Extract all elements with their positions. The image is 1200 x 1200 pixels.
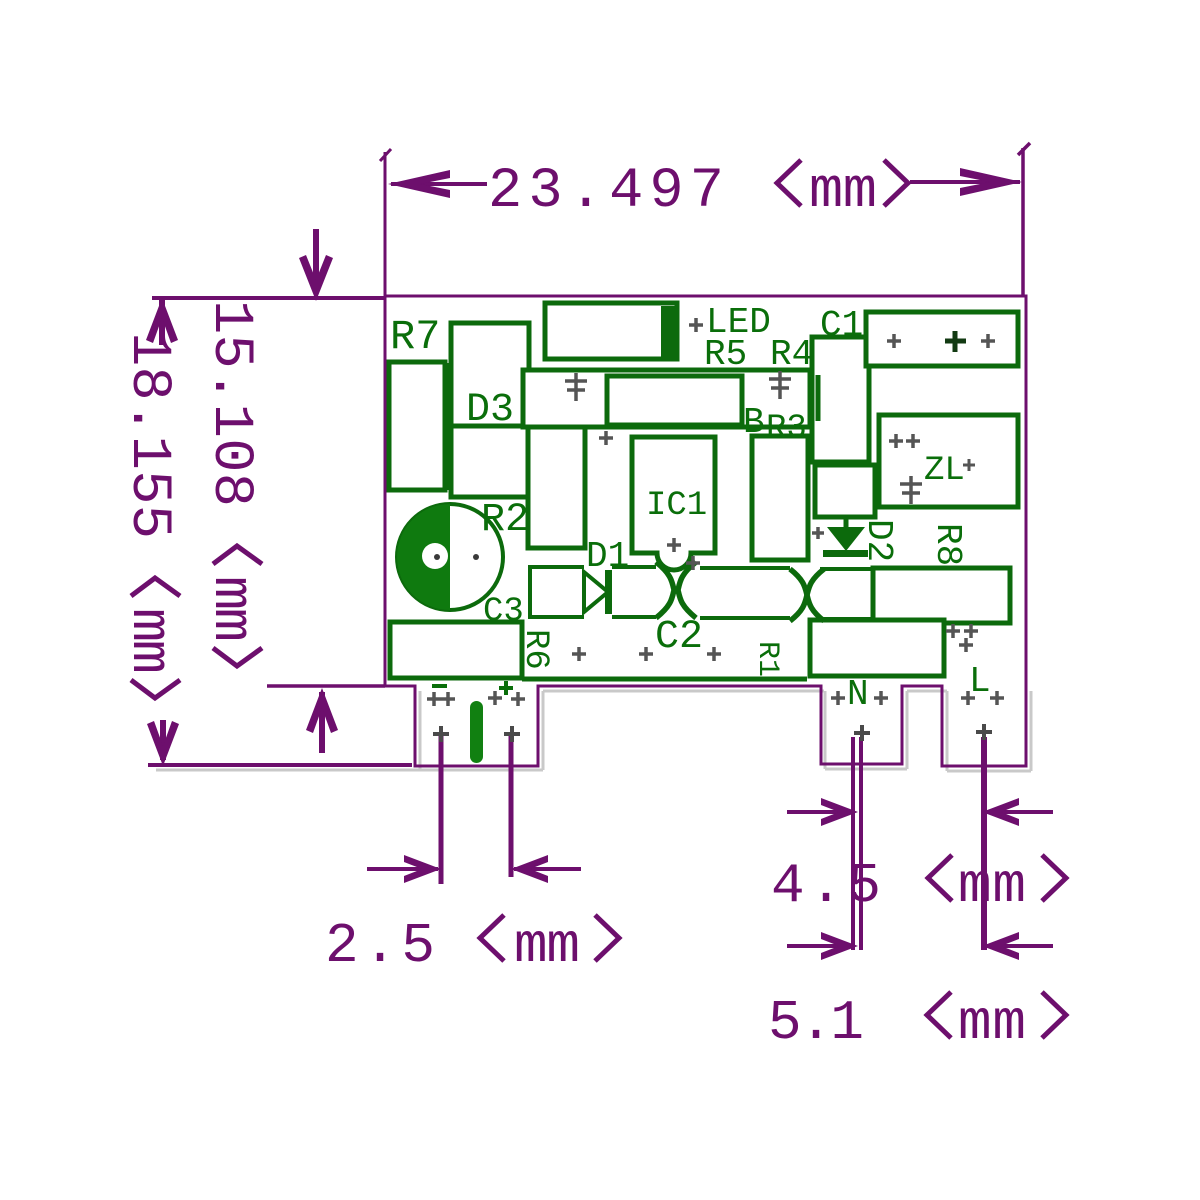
pad symbol in right cell (769, 371, 791, 399)
label minus in left tab (432, 684, 447, 688)
pad row above bottom wire 1 (572, 647, 586, 661)
pads in ZL top left (889, 434, 920, 448)
dimension text 2.5 (mm) (325, 914, 619, 978)
svg-text:D2: D2 (858, 519, 899, 562)
wire pin line left A (2.5 dim) (439, 735, 444, 884)
wire pin lines N (4.5/5.1 dim) (853, 737, 861, 950)
wire rail top mid (612, 565, 656, 569)
label plus in left tab (499, 681, 513, 695)
svg-text:R4: R4 (770, 334, 813, 375)
wire rail top right (700, 566, 790, 570)
dimension text 23.497 (mm) (488, 160, 908, 224)
wire pin line left B (2.5 dim) (509, 735, 514, 877)
pad in IC1 notch (667, 538, 681, 552)
pad on left pin B (504, 726, 520, 742)
svg-text:ZL: ZL (924, 452, 965, 490)
svg-text:mm: mm (958, 854, 1026, 918)
svg-text:IC1: IC1 (646, 487, 707, 525)
pad above C2 curl (686, 556, 700, 570)
wire rail bottom mid (612, 615, 656, 619)
dimension text 15.108 (mm) rotated (198, 300, 262, 666)
svg-text:4.5: 4.5 (771, 854, 881, 918)
pads in left tab pair B (488, 691, 525, 706)
svg-text:15.108: 15.108 (198, 300, 262, 507)
dimension arrow 5.1 left (787, 932, 858, 960)
pad left of D2 (812, 527, 824, 539)
svg-text:R7: R7 (390, 313, 440, 361)
svg-text:mm: mm (958, 991, 1026, 1055)
arrow up at board bottom (15.108 dim) (306, 688, 338, 753)
svg-text:R1: R1 (750, 641, 784, 677)
svg-text:D3: D3 (466, 388, 514, 433)
wire pin line L (4.5/5.1 dim) (981, 737, 987, 950)
pad symbol in left cell (565, 373, 587, 401)
dimension arrow 2.5 left (367, 855, 441, 883)
pad small plus right in block (981, 334, 995, 348)
dimension arrow right (width dim) (910, 168, 1022, 196)
component row R5/R4 outer (523, 370, 810, 427)
wire rail bottom far right (820, 617, 873, 621)
transistor C2 curls (656, 562, 696, 618)
wire shadow under bottom edges (156, 691, 1031, 771)
capacitor block below C1 (815, 465, 875, 517)
diode D3 body (451, 323, 529, 426)
resistor R6 body (390, 622, 522, 678)
LED body (545, 303, 677, 359)
wire fill band right of R7 (444, 363, 456, 490)
diode D1 (584, 570, 612, 614)
dimension arrow 4.5 left (787, 798, 858, 826)
transistor curls right (790, 569, 824, 621)
wire rail top far right (820, 567, 873, 571)
connector block top right (866, 312, 1018, 366)
connector pin bar in left tab (470, 701, 483, 763)
arrow down at left bottom (18.155 dim) (147, 720, 179, 766)
arrow down to board top (299, 229, 333, 301)
pad symbol below ZL label (900, 476, 922, 504)
arrow up at left top (18.155 dim) (146, 298, 178, 345)
svg-text:R8: R8 (927, 523, 968, 566)
wire bottom extension line (15.108 dim) (267, 684, 385, 688)
svg-text:R3: R3 (766, 410, 807, 448)
svg-text:B: B (743, 402, 765, 443)
svg-text:mm: mm (116, 608, 180, 674)
svg-text:2.5: 2.5 (325, 914, 435, 978)
pad right of LED (689, 318, 703, 332)
pad on L pin (976, 724, 992, 740)
pads beside N (831, 691, 888, 705)
varistor ZL body (879, 415, 1018, 507)
dimension arrow 5.1 right (982, 932, 1053, 960)
pads in left tab pair A (427, 692, 455, 706)
dimension arrow 2.5 right (511, 855, 581, 883)
svg-text:mm: mm (514, 914, 580, 978)
pad row above bottom wire 3 (707, 647, 721, 661)
resistor bar mid tall (528, 422, 585, 548)
svg-text:R6: R6 (516, 629, 554, 670)
wire rail top left (530, 565, 584, 569)
svg-text:5.1: 5.1 (768, 991, 864, 1055)
wire rail bottom left (530, 615, 584, 619)
pad row above bottom wire 2 (639, 647, 653, 661)
svg-text:L: L (969, 661, 991, 702)
dimension text 4.5 (mm) (771, 854, 1066, 918)
component body bottom right (810, 620, 944, 676)
pads above L (946, 624, 978, 652)
dimension arrow left (width dim) (388, 170, 487, 198)
op-amp IC1 body (632, 437, 715, 570)
dimension text 5.1 (mm) (768, 991, 1066, 1055)
wire dim extension right vertical (1018, 143, 1030, 296)
pad on left pin A (433, 726, 449, 742)
svg-text:C2: C2 (655, 615, 703, 660)
wire top extension line left (152, 296, 385, 300)
svg-text:18.155: 18.155 (116, 332, 180, 539)
wire rail left vertical (528, 565, 532, 619)
wire long bottom (522, 677, 807, 682)
pad small plus left in block (887, 334, 901, 348)
capacitor C4 body (electrolytic circle) (397, 504, 503, 610)
board outline (385, 296, 1026, 766)
svg-text:N: N (847, 674, 869, 715)
svg-text:R2: R2 (481, 498, 529, 543)
pad big plus in block (945, 331, 966, 352)
pad right of ZL label (963, 459, 975, 471)
wire dim extension left vertical (380, 149, 391, 296)
resistor R3 body (752, 436, 808, 560)
diode D2 (823, 527, 868, 557)
svg-text:mm: mm (809, 160, 877, 224)
pads beside L (961, 691, 1004, 705)
wire bottom extension line (18.155 dim) (148, 763, 412, 767)
svg-text:D1: D1 (586, 536, 629, 577)
resistor R8 body (873, 568, 1010, 623)
dimension text 18.155 (mm) rotated (116, 332, 180, 698)
svg-text:mm: mm (198, 576, 262, 642)
pad on N pin (854, 725, 870, 741)
diode D3 body lower (451, 426, 529, 497)
svg-text:R5: R5 (704, 334, 747, 375)
wire rail bottom right (700, 616, 790, 620)
wire to diode D2 (844, 517, 849, 528)
dimension arrow 4.5 right (982, 798, 1053, 826)
resistor R5 body inner (607, 376, 742, 425)
capacitor C1 body (812, 337, 869, 462)
resistor R7 (389, 362, 445, 490)
svg-text:C1: C1 (820, 305, 863, 346)
pad below R5 (599, 431, 613, 445)
